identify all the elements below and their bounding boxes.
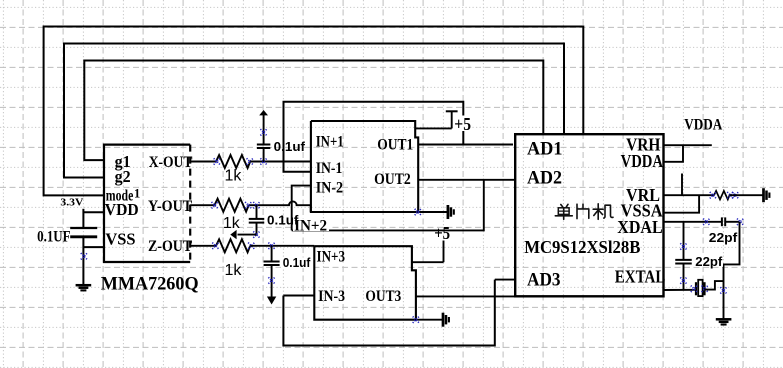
capacitor C1 0.1UF bbox=[70, 227, 97, 229]
net label IN+2 bbox=[293, 219, 329, 231]
wire feedback rail OUT3/IN-3 bbox=[283, 280, 494, 346]
wire 3.3V stem bbox=[82, 209, 84, 228]
capacitor C4 0.1uf bbox=[271, 246, 273, 262]
svg-text:AD1: AD1 bbox=[527, 138, 563, 159]
svg-text:MMA7260Q: MMA7260Q bbox=[101, 275, 199, 295]
resistor R1 1k bbox=[216, 155, 250, 168]
svg-text:IN+2: IN+2 bbox=[294, 218, 327, 235]
wire EXTAL bbox=[664, 289, 697, 291]
wire Y-OUT bbox=[190, 204, 214, 206]
wire VDD pin bbox=[83, 211, 104, 213]
power arrow down bbox=[267, 297, 276, 305]
svg-text:AD3: AD3 bbox=[527, 269, 561, 290]
svg-text:g2: g2 bbox=[115, 167, 131, 186]
wire R2 to opamp (with hop) bbox=[250, 201, 311, 212]
capacitor C5 22pf bbox=[721, 217, 723, 226]
wire VRL bbox=[664, 194, 715, 196]
wire X-OUT bbox=[190, 161, 216, 163]
svg-text:3.3V: 3.3V bbox=[60, 198, 83, 209]
wire XDAL bbox=[664, 221, 722, 223]
svg-text:VDDA: VDDA bbox=[684, 117, 722, 134]
svg-text:0.1UF: 0.1UF bbox=[37, 229, 71, 246]
wire Z-OUT bbox=[190, 245, 216, 247]
power arrow up bbox=[259, 110, 268, 115]
wire: g2 to MCU top (middle loop) bbox=[64, 44, 564, 178]
wire VDDA pin bbox=[664, 145, 684, 162]
no-ERC marker VSS bbox=[81, 253, 87, 259]
node X filter junction bbox=[260, 158, 266, 164]
wire op-amp1 ground bbox=[418, 211, 448, 213]
svg-text:+5: +5 bbox=[434, 223, 450, 243]
wire: mode1 to MCU top (outer loop) bbox=[44, 27, 584, 196]
svg-text:VSS: VSS bbox=[105, 230, 135, 249]
svg-text:XDAL: XDAL bbox=[617, 217, 662, 237]
capacitor C2 0.1uf bbox=[263, 115, 265, 145]
svg-text:Y-OUT: Y-OUT bbox=[148, 198, 192, 215]
op-amp U3 box bbox=[311, 121, 418, 212]
crystal Y1 bbox=[695, 282, 697, 295]
svg-text:0.1uf: 0.1uf bbox=[283, 256, 311, 270]
wire IN-2 stub bbox=[292, 186, 311, 231]
svg-text:MC9S12XSl28B: MC9S12XSl28B bbox=[524, 237, 640, 257]
ground (VSS) bbox=[76, 284, 92, 287]
wire OUT1 feedback to IN-1 bbox=[284, 102, 464, 172]
power +5 (op-amp 2) bbox=[412, 261, 444, 263]
svg-text:1k: 1k bbox=[225, 167, 243, 184]
svg-text:EXTAL: EXTAL bbox=[615, 266, 666, 286]
wire R3 to opamp2 bbox=[250, 245, 314, 247]
resistor R4 bbox=[714, 191, 730, 200]
svg-text:OUT3: OUT3 bbox=[365, 288, 401, 305]
wire AD3 bbox=[495, 279, 515, 281]
capacitor C3 0.1uf bbox=[256, 205, 258, 219]
power arrow left bbox=[238, 234, 257, 236]
svg-text:X-OUT: X-OUT bbox=[149, 154, 193, 171]
wire XDAL right branch down bbox=[724, 222, 740, 319]
svg-text:0.1uf: 0.1uf bbox=[274, 140, 306, 154]
wire OUT2 to AD2 bbox=[418, 179, 515, 181]
power +5 (op-amp 1) bbox=[415, 127, 452, 129]
svg-text:1: 1 bbox=[134, 186, 140, 200]
wire VRH bbox=[664, 144, 712, 146]
capacitor C6 22pf bbox=[675, 259, 692, 261]
ground (crystal) bbox=[716, 318, 732, 321]
wire stub above VRL bbox=[681, 174, 683, 196]
svg-text:VDD: VDD bbox=[105, 200, 139, 219]
svg-text:IN-3: IN-3 bbox=[318, 288, 345, 305]
wire OUT3 bbox=[416, 295, 515, 297]
label 单片机 (microcontroller) bbox=[555, 204, 613, 220]
wire R1 to IN-1 bbox=[250, 161, 311, 163]
svg-text:1k: 1k bbox=[225, 262, 243, 279]
svg-text:1k: 1k bbox=[223, 215, 241, 232]
svg-text:+5: +5 bbox=[454, 114, 471, 134]
svg-text:Z-OUT: Z-OUT bbox=[148, 238, 192, 255]
wire VSSA bbox=[664, 195, 700, 213]
svg-text:IN+3: IN+3 bbox=[317, 248, 346, 265]
op-amp U4 box bbox=[314, 246, 416, 320]
wire OUT1 to AD1 bbox=[418, 144, 513, 146]
svg-text:OUT2: OUT2 bbox=[374, 171, 411, 188]
wire VSS pin bbox=[83, 246, 104, 248]
svg-text:AD2: AD2 bbox=[527, 168, 562, 189]
resistor R2 1k bbox=[215, 199, 249, 212]
svg-text:IN-1: IN-1 bbox=[316, 160, 343, 177]
ground (op-amp 1) bbox=[447, 205, 450, 219]
wire XDAL left branch down bbox=[683, 222, 685, 260]
svg-text:OUT1: OUT1 bbox=[377, 137, 413, 154]
ground (op-amp 2) bbox=[442, 313, 445, 327]
svg-text:22pf: 22pf bbox=[709, 230, 738, 245]
wire op-amp2 ground bbox=[416, 319, 443, 321]
svg-text:VDDA: VDDA bbox=[621, 151, 664, 171]
wire IN-3 input bbox=[283, 295, 314, 297]
wire IN+2 net bbox=[292, 180, 484, 231]
wire: g1 to MCU top (inner loop) bbox=[84, 61, 543, 161]
node Z filter junction bbox=[268, 243, 274, 249]
ground (VRL, sideways) bbox=[762, 188, 765, 202]
svg-text:IN-2: IN-2 bbox=[316, 179, 344, 196]
svg-text:IN+1: IN+1 bbox=[316, 133, 344, 150]
wire cap to ground bbox=[82, 237, 84, 285]
IC U1 MC9S12XS128B box bbox=[515, 134, 663, 296]
IC U2 MMA7260Q box bbox=[104, 145, 190, 262]
wire crystal to ground branch bbox=[705, 281, 724, 290]
node Y filter junction bbox=[253, 202, 259, 208]
wire R4 to ground bbox=[730, 194, 764, 196]
svg-text:0.1uf: 0.1uf bbox=[267, 214, 299, 228]
resistor R3 1k bbox=[216, 239, 250, 252]
svg-text:22pf: 22pf bbox=[695, 254, 723, 269]
